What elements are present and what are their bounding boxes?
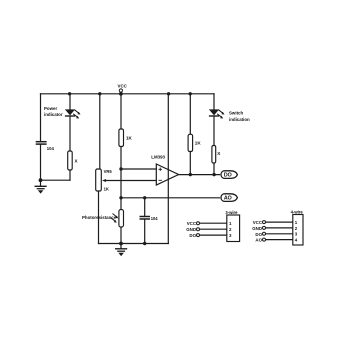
- node output-R2 junction: [189, 173, 192, 176]
- ground middle: [115, 249, 127, 256]
- wire ground rail bottom: [99, 243, 169, 245]
- node rail-R2 junction: [189, 92, 192, 95]
- svg-text:LM393: LM393: [151, 155, 165, 160]
- wire right drop middle: [213, 116, 215, 146]
- svg-text:3-wire: 3-wire: [225, 210, 238, 215]
- wire C2 upper: [144, 198, 146, 216]
- wire VCC top rail: [41, 93, 215, 95]
- wire J1 pin1: [200, 222, 227, 224]
- resistor R1 1K: [119, 129, 124, 147]
- node divider-AO junction: [119, 196, 122, 199]
- capacitor C2 104: [140, 217, 151, 220]
- svg-text:X: X: [75, 159, 79, 164]
- resistor R3 X: [212, 146, 216, 164]
- wire divider upper to R1: [120, 94, 122, 129]
- pin J2 AO circle: [263, 238, 266, 241]
- wire divider lower LDR to ground rail: [120, 227, 122, 244]
- svg-text:Switch: Switch: [229, 111, 243, 116]
- node DO flag: [221, 171, 237, 179]
- node rail-pot junction: [98, 92, 101, 95]
- wire AO rail: [121, 197, 220, 199]
- svg-text:GND: GND: [252, 226, 262, 231]
- resistor R-power X: [68, 151, 73, 170]
- wire power LED branch upper: [69, 94, 71, 110]
- wire ground stub middle: [120, 244, 122, 249]
- wire C2 lower: [144, 220, 146, 244]
- wire pot bottom drop: [98, 191, 100, 244]
- svg-text:DO: DO: [189, 233, 196, 238]
- svg-text:4-wire: 4-wire: [291, 210, 304, 215]
- pin J2 DO circle: [263, 232, 266, 235]
- wire right drop lower: [213, 163, 215, 175]
- svg-text:AO: AO: [224, 196, 232, 202]
- node C2 bottom junction: [143, 242, 146, 245]
- connector J1 3-wire: [227, 215, 240, 242]
- node rail-opamp-power junction: [167, 92, 170, 95]
- svg-text:VCC: VCC: [253, 220, 263, 225]
- connector J2 4-wire: [293, 215, 303, 246]
- pin J2 GND circle: [263, 226, 266, 229]
- svg-text:104: 104: [47, 146, 55, 151]
- svg-text:X: X: [217, 151, 221, 156]
- op-amp U1 LM393: [156, 164, 178, 185]
- wire J2 pin1: [266, 221, 293, 223]
- wire right drop upper: [213, 94, 215, 110]
- wire J1 pin2: [200, 228, 227, 230]
- potentiometer VR5: [96, 169, 106, 191]
- svg-text:GND: GND: [186, 227, 196, 232]
- resistor R2 1K: [188, 134, 193, 151]
- svg-text:1K: 1K: [126, 136, 133, 141]
- node C2 top junction: [143, 196, 146, 199]
- wire to op-amp plus input: [121, 168, 156, 170]
- svg-text:1K: 1K: [104, 186, 109, 191]
- svg-text:Photoresistance: Photoresistance: [82, 215, 117, 220]
- photoresistor LDR: [111, 210, 124, 228]
- node AO flag: [221, 194, 237, 202]
- wire left drop below C1: [40, 144, 42, 180]
- wire J2 pin4: [266, 239, 293, 241]
- wire R2 upper: [189, 94, 191, 135]
- wire power LED branch middle: [69, 116, 71, 151]
- node middle ground junction: [119, 242, 123, 246]
- svg-text:indicator: indicator: [44, 112, 63, 117]
- wire pot branch from rail: [99, 94, 101, 169]
- wire ground stub left: [40, 180, 42, 186]
- svg-text:indication: indication: [229, 117, 250, 122]
- svg-text:1K: 1K: [195, 141, 202, 146]
- svg-text:VCC: VCC: [118, 83, 128, 88]
- svg-text:DO: DO: [224, 173, 232, 179]
- wire R2 lower: [189, 152, 191, 175]
- node rail-LED1 junction: [68, 92, 71, 95]
- node plus-input junction: [119, 167, 122, 170]
- pin J1 VCC circle: [197, 222, 200, 225]
- wire left drop above C1: [40, 94, 42, 141]
- wire J2 pin3: [266, 233, 293, 235]
- wire power LED branch lower: [69, 170, 71, 180]
- svg-text:VCC: VCC: [187, 221, 197, 226]
- svg-text:DO: DO: [255, 232, 262, 237]
- wire op-amp output to DO: [179, 174, 220, 176]
- wire divider middle R1 to LDR: [120, 147, 122, 210]
- capacitor C1 104: [36, 142, 47, 144]
- wire pot wiper to op-amp minus input: [105, 180, 157, 182]
- wire J1 pin3: [200, 234, 227, 236]
- wire J2 pin2: [266, 227, 293, 229]
- pin J1 GND circle: [197, 228, 200, 231]
- svg-text:104: 104: [151, 216, 159, 221]
- svg-text:AO: AO: [255, 238, 262, 243]
- wire bottom-left to ground node: [41, 179, 71, 181]
- svg-text:VR5: VR5: [104, 169, 113, 174]
- pin J2 VCC circle: [263, 221, 266, 224]
- LED1 power indicator: [65, 109, 81, 118]
- node rail-VCC junction: [119, 92, 123, 96]
- node left ground junction: [39, 178, 43, 182]
- svg-text:Power: Power: [44, 106, 57, 111]
- power VCC symbol: [119, 89, 122, 94]
- pin J1 DO circle: [197, 234, 200, 237]
- node output-R3 junction: [212, 173, 215, 176]
- wire op-amp power vertical: [167, 94, 169, 244]
- LED2 switch indication: [209, 109, 225, 118]
- ground left: [35, 186, 47, 193]
